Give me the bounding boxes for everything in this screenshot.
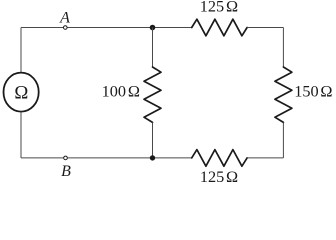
wire right side lower: R3 to bottom-right corner <box>282 122 284 157</box>
junction dot top <box>150 25 156 31</box>
svg-text:125Ω: 125Ω <box>200 0 238 16</box>
wire top: terminal A to junction and on to R1 <box>67 27 191 29</box>
resistor R3 150 ohm right zigzag <box>275 67 292 122</box>
ohmmeter body (circle) <box>4 73 39 112</box>
wire bottom: R4 to bottom-right corner <box>247 157 283 159</box>
wire bottom: terminal B to junction and on to R4 <box>68 157 192 159</box>
svg-text:100Ω: 100Ω <box>102 82 140 101</box>
svg-text:125Ω: 125Ω <box>200 167 238 186</box>
wire right side upper: corner down to R3 <box>282 28 284 68</box>
wire middle vertical upper: top junction to R2 <box>152 28 154 68</box>
resistor R1 125 ohm top zigzag <box>192 19 247 36</box>
resistor R4 125 ohm bottom zigzag <box>192 150 247 167</box>
resistor R2 100 ohm middle zigzag <box>144 67 161 122</box>
terminal A (open circle) <box>64 26 68 30</box>
wire top: R1 to top-right corner <box>247 27 283 29</box>
wire top: left corner to terminal A <box>21 27 63 29</box>
wire bottom: left corner to terminal B <box>21 157 64 159</box>
wire left side lower: ohmmeter to bottom-left corner <box>20 112 22 158</box>
svg-text:B: B <box>61 163 71 180</box>
svg-text:A: A <box>59 9 70 26</box>
wire left side upper: corner down to ohmmeter <box>20 28 22 73</box>
wire middle vertical lower: R2 to bottom junction <box>152 122 154 157</box>
svg-text:150Ω: 150Ω <box>294 82 332 101</box>
junction dot bottom <box>150 155 155 160</box>
terminal B (open circle) <box>64 156 68 160</box>
svg-text:Ω: Ω <box>14 82 28 103</box>
